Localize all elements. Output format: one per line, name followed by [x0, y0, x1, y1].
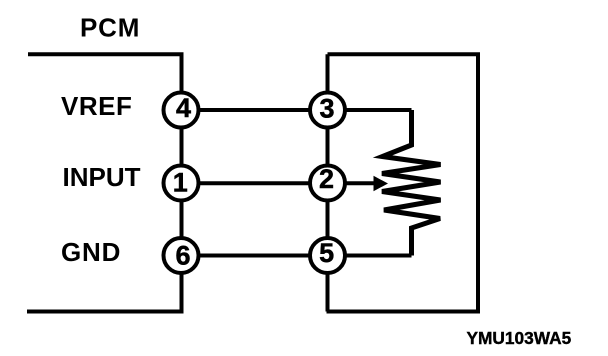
svg-text:3: 3 [319, 94, 334, 124]
svg-text:1: 1 [173, 167, 188, 197]
svg-text:5: 5 [319, 238, 334, 268]
svg-text:GND: GND [61, 237, 121, 267]
svg-text:2: 2 [319, 164, 334, 194]
svg-text:VREF: VREF [61, 91, 132, 121]
svg-text:6: 6 [175, 241, 190, 271]
svg-text:YMU103WA5: YMU103WA5 [467, 328, 572, 348]
svg-text:PCM: PCM [80, 12, 140, 42]
svg-text:INPUT: INPUT [63, 162, 141, 192]
svg-text:4: 4 [176, 93, 191, 123]
